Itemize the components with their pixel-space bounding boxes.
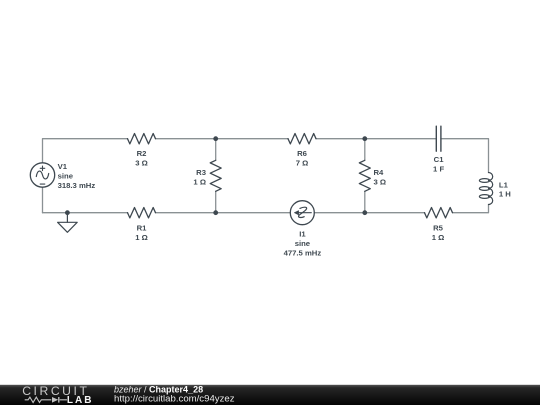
node dot R4 bottom — [362, 210, 367, 215]
node dot R4 top — [362, 136, 367, 141]
svg-text:I1: I1 — [299, 229, 306, 238]
wire R3 leads — [215, 139, 217, 213]
svg-text:R1: R1 — [137, 223, 148, 232]
node dot R3 bottom — [213, 210, 218, 215]
resistor R1 — [128, 208, 156, 218]
resistor R4 — [359, 160, 370, 191]
svg-text:1 H: 1 H — [499, 190, 511, 199]
svg-text:R4: R4 — [374, 168, 385, 177]
ground — [58, 213, 78, 233]
svg-text:1 Ω: 1 Ω — [432, 233, 445, 242]
footer bar — [0, 385, 540, 405]
svg-text:L1: L1 — [499, 181, 509, 190]
svg-text:7 Ω: 7 Ω — [296, 159, 309, 168]
wire R4 leads — [364, 139, 366, 213]
svg-text:C1: C1 — [434, 155, 445, 164]
voltage source V1 — [30, 163, 54, 187]
wire C1 to right corner down to L1 — [441, 139, 489, 173]
wire top R2 to R6 — [156, 138, 289, 140]
svg-text:3 Ω: 3 Ω — [374, 177, 387, 186]
capacitor C1 — [436, 126, 441, 151]
svg-text:sine: sine — [295, 239, 311, 248]
resistor R5 — [425, 208, 453, 218]
wire R5 to I1 — [314, 212, 424, 214]
wire I1 to R1 — [156, 212, 291, 214]
svg-text:1 Ω: 1 Ω — [135, 233, 148, 242]
svg-text:477.5 mHz: 477.5 mHz — [284, 249, 322, 258]
wire left vertical through V1 up to top-left corner, to R2 — [43, 139, 128, 213]
svg-text:R3: R3 — [196, 168, 206, 177]
current source I1 — [290, 201, 314, 225]
resistor R2 — [128, 134, 156, 144]
node dot ground junction — [65, 210, 70, 215]
svg-text:1 F: 1 F — [433, 165, 444, 174]
svg-text:R6: R6 — [297, 149, 307, 158]
resistor R6 — [288, 134, 316, 144]
wire R1 to bottom-left corner — [43, 212, 128, 214]
svg-text:318.3 mHz: 318.3 mHz — [58, 181, 96, 190]
node dot R3 top — [213, 136, 218, 141]
svg-text:sine: sine — [58, 171, 74, 180]
svg-text:LAB: LAB — [67, 395, 94, 405]
svg-text:R2: R2 — [137, 149, 147, 158]
inductor L1 — [479, 173, 492, 205]
svg-text:R5: R5 — [433, 223, 444, 232]
svg-text:3 Ω: 3 Ω — [135, 159, 148, 168]
svg-text:1 Ω: 1 Ω — [193, 177, 206, 186]
svg-text:V1: V1 — [58, 162, 68, 171]
CircuitLab logo resistor-diode glyph — [25, 397, 67, 403]
svg-text:http://circuitlab.com/c94yzez: http://circuitlab.com/c94yzez — [114, 394, 235, 405]
wire L1 to bottom-right corner to R5 — [453, 205, 489, 213]
wire top R6 to C1 — [316, 138, 436, 140]
resistor R3 — [210, 160, 221, 191]
